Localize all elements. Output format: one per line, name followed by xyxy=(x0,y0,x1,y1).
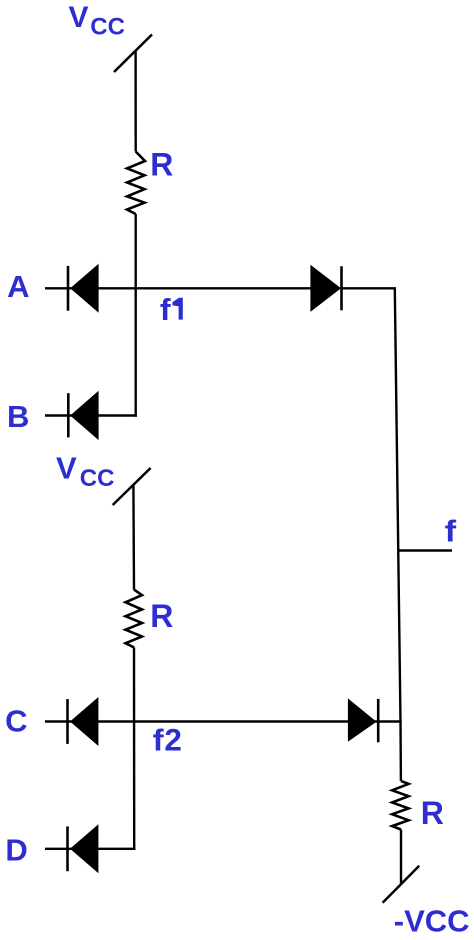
svg-text:R: R xyxy=(150,598,173,634)
power symbol VCC (gate 2) xyxy=(113,468,151,505)
diode input A: cathode bar xyxy=(67,266,70,311)
label f1 digit 1 xyxy=(172,298,182,320)
wire bus gate 1 upper (VCC to resistor) xyxy=(134,51,136,152)
svg-text:2: 2 xyxy=(164,721,182,757)
power symbol VCC (gate 1) xyxy=(114,35,152,73)
svg-text:f: f xyxy=(160,292,172,327)
wire row D xyxy=(45,848,135,850)
svg-text:R: R xyxy=(421,795,444,831)
diode input B: triangle xyxy=(70,391,98,440)
resistor R (gate 2) xyxy=(126,590,143,648)
diode input D: cathode bar xyxy=(66,826,69,871)
wire bus gate 1 lower (resistor to B row) xyxy=(134,214,136,417)
svg-text:A: A xyxy=(7,269,29,304)
svg-text:D: D xyxy=(5,833,27,868)
wire bus gate 2 lower (resistor to D row) xyxy=(133,647,136,850)
wire output resistor to -VCC xyxy=(400,830,402,885)
diode f2 output: triangle xyxy=(348,698,377,741)
svg-text:B: B xyxy=(7,399,29,434)
svg-text:CC: CC xyxy=(90,14,125,41)
wire row A / f1 xyxy=(45,287,396,289)
resistor R (output, bottom right) xyxy=(392,781,409,830)
diode f1 output: triangle xyxy=(310,265,341,312)
diode input C: triangle xyxy=(70,697,98,746)
wire bus gate 2 upper (VCC to resistor) xyxy=(132,484,135,589)
wire right bus (f1 corner down to bottom resistor) xyxy=(395,288,401,781)
diode input C: cathode bar xyxy=(66,699,69,744)
power symbol -VCC xyxy=(383,866,420,903)
wire row B xyxy=(45,414,137,416)
svg-text:R: R xyxy=(150,147,173,183)
svg-text:-VCC: -VCC xyxy=(394,904,470,939)
diode f1 output: cathode bar xyxy=(340,266,343,310)
diode input B: cathode bar xyxy=(67,393,70,437)
diode input A: triangle xyxy=(70,264,98,313)
resistor R (gate 1) xyxy=(127,152,145,215)
svg-text:f: f xyxy=(445,515,457,549)
svg-text:V: V xyxy=(56,450,77,485)
diode f2 output: cathode bar xyxy=(377,699,380,742)
svg-text:f: f xyxy=(153,722,165,757)
svg-text:CC: CC xyxy=(80,465,115,492)
svg-text:V: V xyxy=(69,1,89,34)
wire output stub f xyxy=(398,549,453,551)
diode input D: triangle xyxy=(70,824,98,873)
wire row C / f2 xyxy=(45,720,402,722)
svg-text:C: C xyxy=(5,703,27,738)
